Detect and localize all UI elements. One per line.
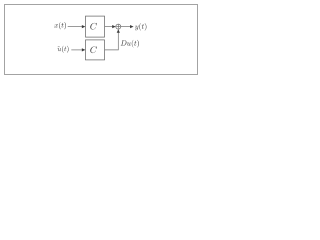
label C of block C2 <box>90 46 97 53</box>
block C2 (bottom) <box>86 40 105 60</box>
arrowhead into summer <box>112 25 116 28</box>
arrowhead into y(t) <box>130 25 134 28</box>
plus sign of summer <box>116 26 120 28</box>
wire summer to y(t) <box>121 25 134 28</box>
wire C2 right then up to summer <box>105 29 120 50</box>
label Du(t) <box>121 40 139 48</box>
wire C1 to summer <box>105 25 116 28</box>
frame <box>5 5 198 75</box>
node u~(t) label <box>57 46 68 53</box>
wire x(t) to C1 <box>68 25 86 28</box>
wire u~(t) to C2 <box>71 48 85 51</box>
node y(t) label <box>135 23 146 31</box>
arrowhead into C1 <box>82 25 86 28</box>
summer circle <box>116 24 121 29</box>
block C1 (top) <box>86 16 105 37</box>
arrowhead up into summer <box>117 29 120 33</box>
node x(t) label <box>54 22 66 29</box>
arrowhead into C2 <box>82 48 86 51</box>
label C of block C1 <box>90 23 97 30</box>
